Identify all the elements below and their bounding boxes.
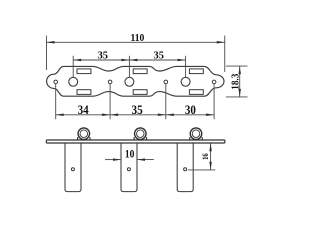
svg-text:34: 34 bbox=[78, 103, 89, 117]
svg-text:35: 35 bbox=[132, 103, 143, 117]
svg-text:10: 10 bbox=[125, 146, 135, 160]
svg-text:110: 110 bbox=[131, 33, 145, 44]
svg-text:35: 35 bbox=[154, 50, 164, 62]
svg-text:16: 16 bbox=[201, 153, 210, 160]
svg-text:18.3: 18.3 bbox=[231, 74, 242, 90]
svg-text:35: 35 bbox=[98, 50, 108, 62]
svg-text:30: 30 bbox=[185, 103, 196, 117]
